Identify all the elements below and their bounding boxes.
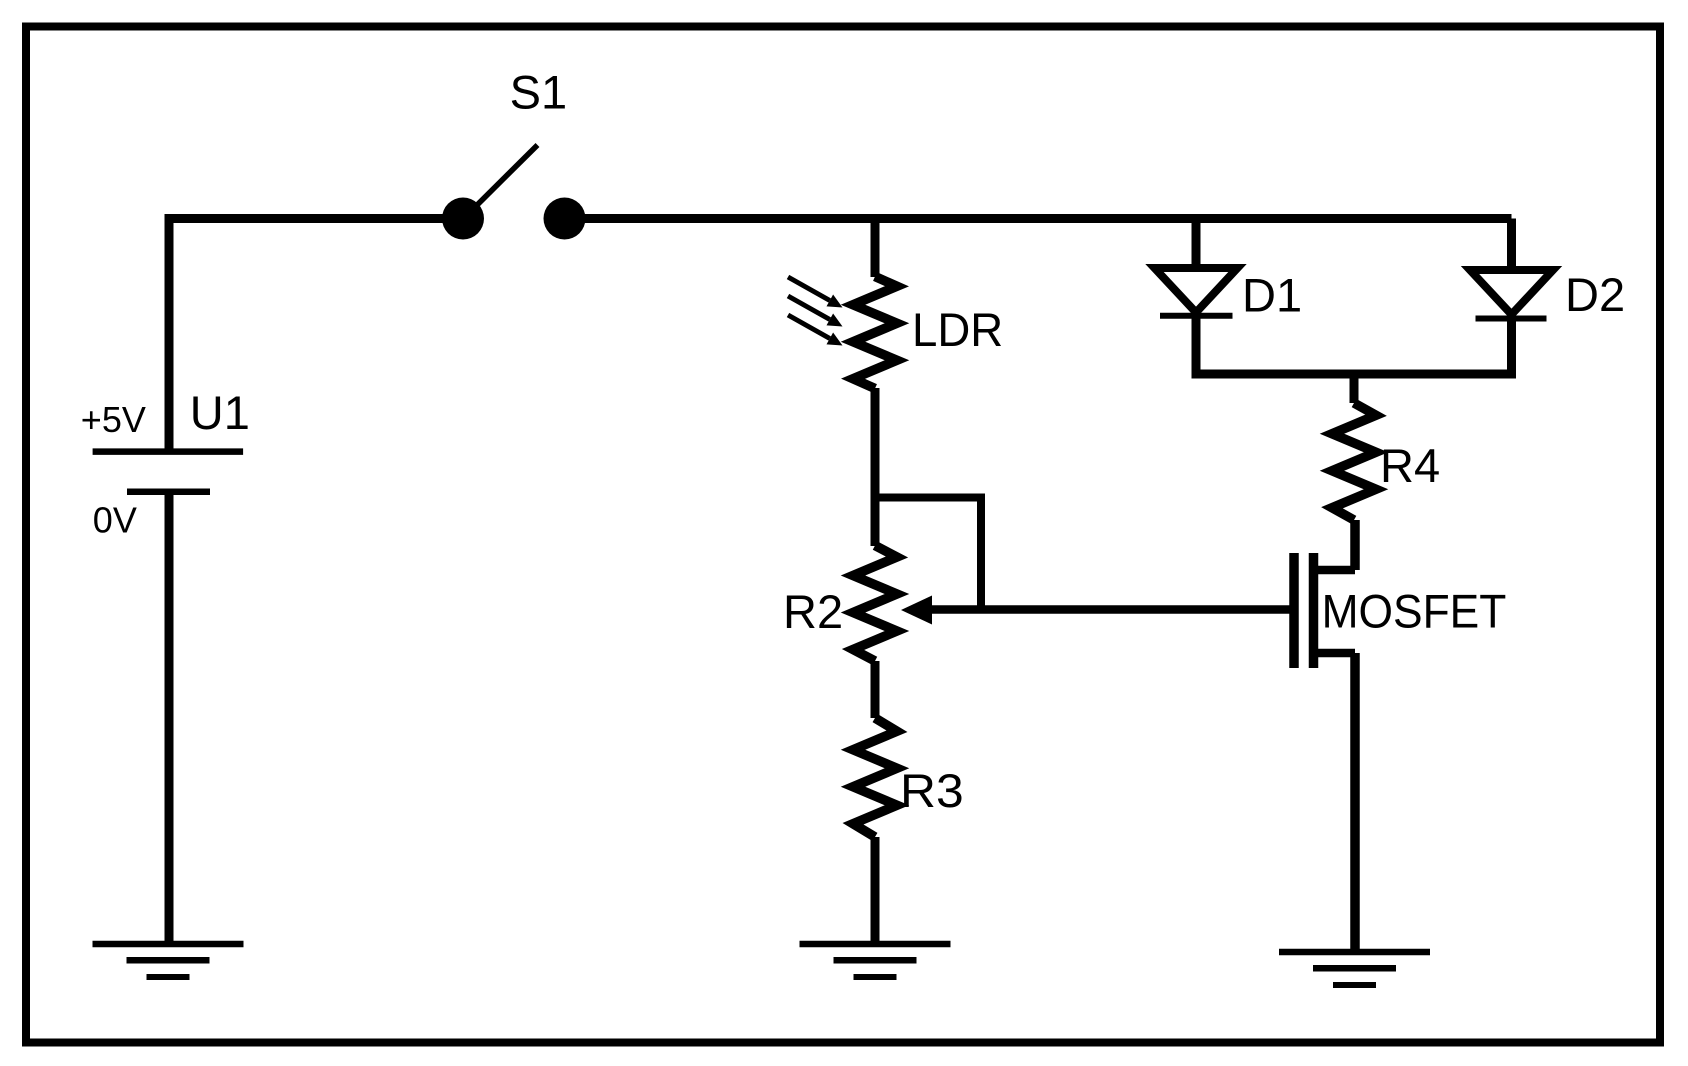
potentiometer R2 — [783, 546, 932, 662]
MOSFET gate bar — [1289, 553, 1299, 668]
node switch right contact — [544, 198, 586, 240]
svg-text:D1: D1 — [1242, 269, 1302, 322]
switch S1 — [442, 66, 586, 240]
svg-text:U1: U1 — [190, 386, 250, 439]
wire R2 to R3 — [871, 661, 880, 718]
svg-text:MOSFET: MOSFET — [1322, 585, 1507, 638]
svg-text:R3: R3 — [900, 764, 964, 817]
wire battery negative to ground — [165, 494, 174, 944]
svg-text:LDR: LDR — [912, 303, 1003, 356]
wire MOSFET source to ground — [1350, 653, 1360, 952]
wire top rail to D1 — [1192, 219, 1201, 269]
svg-text:R4: R4 — [1380, 439, 1440, 492]
diode D2 — [1470, 268, 1625, 321]
wire battery positive to switch (top rail left) — [169, 219, 463, 449]
light arrows into LDR — [788, 277, 843, 346]
MOSFET source tap — [1314, 649, 1356, 658]
wire wiper to MOSFET gate — [930, 605, 1291, 614]
D1 cathode bar — [1160, 313, 1233, 319]
wire top rail to LDR — [871, 219, 880, 278]
wire R2 top-to-wiper loop — [875, 498, 981, 611]
ground MOSFET — [1279, 952, 1430, 985]
battery negative plate — [127, 488, 210, 495]
node switch left contact — [442, 198, 484, 240]
wire R3 to ground — [871, 837, 880, 944]
resistor R4 — [1332, 403, 1440, 520]
ground battery — [93, 944, 244, 977]
wire LED bottom rail — [1192, 370, 1517, 379]
battery U1 — [81, 386, 250, 540]
D2 cathode bar — [1476, 316, 1547, 322]
svg-text:R2: R2 — [783, 585, 843, 638]
svg-text:S1: S1 — [510, 66, 567, 119]
svg-text:D2: D2 — [1565, 268, 1625, 321]
MOSFET drain tap — [1314, 566, 1356, 575]
wire R4 to MOSFET drain — [1350, 520, 1360, 570]
battery positive plate — [93, 448, 244, 455]
MOSFET channel bar — [1309, 553, 1319, 668]
switch lever — [463, 145, 538, 219]
ground R3 — [800, 944, 951, 977]
wire top rail to D2 — [1507, 219, 1516, 271]
wire D1 to bottom rail — [1192, 318, 1201, 374]
wire switch to D2 (top rail right) — [565, 214, 1512, 223]
svg-text:+5V: +5V — [81, 399, 146, 440]
diode D1 — [1155, 268, 1303, 322]
wire bottom rail to R4 — [1350, 374, 1359, 403]
resistor LDR — [853, 277, 1003, 389]
wire D2 to bottom rail — [1507, 321, 1516, 374]
transistor MOSFET — [1294, 553, 1506, 668]
svg-text:0V: 0V — [93, 499, 137, 540]
wiper arrowhead — [901, 596, 932, 625]
wire LDR to R2 — [871, 388, 880, 546]
resistor R3 — [853, 718, 964, 837]
